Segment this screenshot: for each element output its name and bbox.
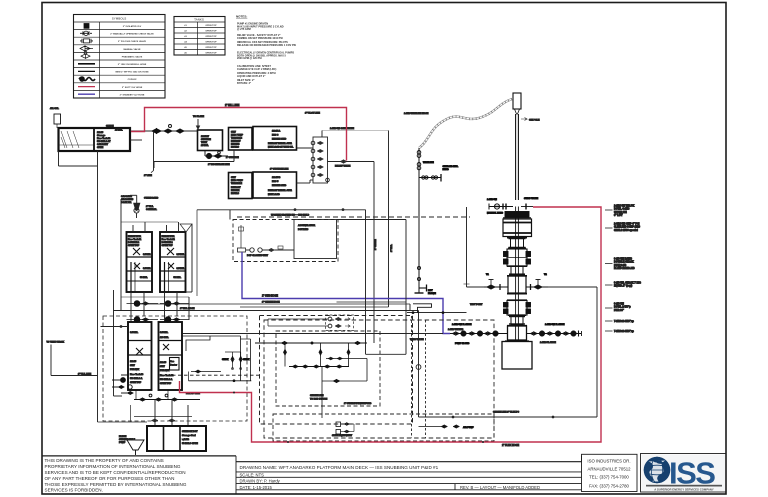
- svg-text:UPS/AUX GROUND NO — RIG HOLD: UPS/AUX GROUND NO — RIG HOLD: [271, 214, 309, 217]
- svg-text:2-1/16 WIRELINE HOSE: 2-1/16 WIRELINE HOSE: [404, 113, 429, 115]
- svg-text:Buster: Buster: [170, 364, 177, 367]
- svg-text:2" FIG 1502 CHECK VALVE: 2" FIG 1502 CHECK VALVE: [118, 40, 146, 43]
- vertical bus choke: [388, 131, 390, 308]
- bottom manifold valves: [134, 390, 200, 401]
- svg-text:CHECK: CHECK: [222, 359, 229, 361]
- svg-text:CHOKE LINE 2" FLEX PS: CHOKE LINE 2" FLEX PS: [493, 412, 520, 414]
- svg-text:2" 1502 CHOKE/KILL HOSE: 2" 1502 CHOKE/KILL HOSE: [118, 64, 147, 66]
- svg-text:12345: 12345: [130, 360, 137, 363]
- svg-text:MAX LOAD: MAX LOAD: [268, 193, 280, 196]
- svg-text:2-1/16 5M FLANGE: 2-1/16 5M FLANGE: [452, 323, 472, 326]
- svg-text:OPEN TOP: OPEN TOP: [205, 47, 217, 49]
- dashed drop tubes: [412, 316, 426, 438]
- svg-text:HEAD: HEAD: [443, 168, 450, 171]
- svg-text:2" SUCTION LINE: 2" SUCTION LINE: [270, 169, 289, 171]
- main diagram: [47, 93, 641, 455]
- mud pump box upper: [229, 128, 253, 151]
- pump cluster under suction tank: [205, 151, 228, 159]
- svg-text:EQUIP. 2" (eqp): EQUIP. 2" (eqp): [614, 285, 632, 288]
- tanks table: [174, 17, 225, 56]
- manifold solid box right edge: [197, 209, 406, 355]
- svg-text:2" STANDPIPE MANIFOLD: 2" STANDPIPE MANIFOLD: [344, 402, 372, 405]
- svg-text:12345 B: 12345 B: [272, 176, 281, 179]
- svg-text:MANUAL WING: MANUAL WING: [487, 212, 503, 215]
- svg-text:SLINE EQUIPMENT: SLINE EQUIPMENT: [332, 435, 353, 437]
- transfer pumps row 2: [127, 317, 190, 323]
- svg-text:PUMP IN SUB: PUMP IN SUB: [455, 343, 470, 345]
- svg-text:Frac Tank #2: Frac Tank #2: [162, 239, 176, 241]
- svg-text:DOUBLE 2: DOUBLE 2: [128, 242, 140, 244]
- svg-text:TO ROD PISTON: TO ROD PISTON: [310, 399, 328, 401]
- hi-lo valve manifold column: [297, 113, 330, 184]
- svg-text:2000 GPM @ 120 PSI: 2000 GPM @ 120 PSI: [237, 57, 262, 60]
- svg-text:CAPACITY: CAPACITY: [97, 143, 109, 146]
- side outlet cross w gate valves: [484, 274, 548, 293]
- manifold vertical drops: [283, 343, 350, 367]
- svg-text:50 BBL: 50 BBL: [140, 277, 148, 279]
- svg-text:RELIEF VALVE: RELIEF VALVE: [335, 165, 351, 168]
- svg-text:OPEN TOP: OPEN TOP: [205, 36, 217, 38]
- row9 red line: [78, 86, 95, 88]
- svg-text:2" LINE: 2" LINE: [144, 175, 152, 177]
- svg-text:CLEAN: CLEAN: [106, 125, 114, 128]
- red high pressure loop A: [131, 108, 347, 161]
- lower pumps / discharge cluster: [112, 375, 134, 395]
- svg-text:SEALS 2700 special: SEALS 2700 special: [614, 229, 638, 232]
- engine skid box upper: [253, 127, 297, 151]
- svg-text:OPEN TOP: OPEN TOP: [205, 42, 217, 44]
- svg-text:PRE-MIX: PRE-MIX: [160, 370, 170, 372]
- svg-text:GIN POLE: GIN POLE: [529, 120, 540, 122]
- svg-text:OVERBOARD: OVERBOARD: [144, 197, 159, 200]
- casing head: [502, 342, 532, 370]
- svg-text:HOURS: HOURS: [231, 193, 239, 195]
- svg-text:12345: 12345: [160, 361, 167, 364]
- svg-text:COMING ON SET PRESSURE 4210 PS: COMING ON SET PRESSURE 4210 PSI: [237, 37, 283, 40]
- upper tank 1: [127, 232, 153, 292]
- svg-text:ARNAUDVILLE 70512: ARNAUDVILLE 70512: [588, 467, 632, 472]
- svg-text:FILL UP LINE: FILL UP LINE: [186, 393, 200, 395]
- svg-text:2" CHOKE: 2" CHOKE: [375, 239, 377, 250]
- svg-text:500 BBLS AT: 500 BBLS AT: [97, 140, 111, 143]
- misc line labels: [180, 157, 556, 344]
- svg-text:PROPRIETARY INFORMATION OF INT: PROPRIETARY INFORMATION OF INTERNATIONAL…: [45, 464, 181, 469]
- row4 valve w stem: [80, 46, 90, 51]
- left main bus vertical: [59, 151, 148, 422]
- svg-text:2" KILL LINE: 2" KILL LINE: [225, 104, 240, 107]
- wireline riser: [415, 148, 459, 295]
- svg-text:PUMP: PUMP: [119, 442, 126, 444]
- svg-text:NOTES:: NOTES:: [236, 15, 247, 19]
- spool 2: [509, 316, 525, 326]
- title block: [42, 454, 726, 495]
- relief line to vertical buses: [322, 127, 389, 168]
- svg-text:8577/BCK BGT: 8577/BCK BGT: [182, 431, 198, 433]
- feed line tank to suction box: [130, 131, 197, 140]
- svg-text:Storage: Storage: [97, 134, 106, 137]
- svg-text:TANKS: TANKS: [194, 17, 204, 21]
- lines down to bottom tank: [134, 400, 192, 427]
- swab valve cross: [487, 197, 539, 215]
- svg-text:50 BBLS OPEN: 50 BBLS OPEN: [182, 443, 198, 445]
- tree upper body: [503, 219, 532, 237]
- spacer spool: [511, 267, 523, 275]
- svg-text:DETROIT: DETROIT: [231, 187, 241, 189]
- trash pump funnel: [119, 405, 144, 455]
- svg-text:DRAWING NAME: WFT ANADARKO PLA: DRAWING NAME: WFT ANADARKO PLATFORM MAIN…: [240, 465, 439, 470]
- svg-text:2" CHOKE HOSE: 2" CHOKE HOSE: [262, 302, 280, 304]
- horizontal tie lines to wellhead: [101, 304, 444, 334]
- svg-text:Frac Tank #4: Frac Tank #4: [160, 374, 174, 377]
- svg-text:2" FILL LINE: 2" FILL LINE: [78, 374, 92, 376]
- callout leaders: [605, 210, 613, 331]
- manifold top sub valves: [268, 315, 354, 331]
- svg-text:123/127: 123/127: [201, 136, 210, 138]
- svg-text:GREASE SEAL: GREASE SEAL: [443, 165, 459, 168]
- row7 line: [78, 70, 95, 72]
- gas buster box: [170, 358, 180, 371]
- row6 thick line: [78, 63, 95, 65]
- svg-text:FRESH WTR: FRESH WTR: [162, 236, 175, 238]
- svg-text:2-1/16 5M GATE VALVE: 2-1/16 5M GATE VALVE: [330, 127, 354, 130]
- svg-text:OPEN TOP: OPEN TOP: [205, 53, 217, 55]
- svg-text:2-1/16 VALVES: 2-1/16 VALVES: [448, 328, 464, 331]
- svg-text:431 GAL: 431 GAL: [50, 107, 60, 110]
- svg-text:SCALE: NTS: SCALE: NTS: [240, 472, 265, 477]
- svg-text:CHARGE EYE CAP: 2 BBM (LDC): CHARGE EYE CAP: 2 BBM (LDC): [237, 68, 276, 71]
- svg-text:25 BBL: 25 BBL: [201, 145, 209, 147]
- row10 blue line: [78, 93, 95, 95]
- wireline hose curve: [419, 99, 512, 148]
- svg-text:CONTROL: CONTROL: [146, 209, 157, 211]
- manifold lower header: [289, 365, 349, 368]
- svg-text:BYPASS: 2": BYPASS: 2": [237, 82, 252, 85]
- svg-text:DATE: 1-15-2015: DATE: 1-15-2015: [240, 485, 273, 490]
- pump interconnect verticals: [121, 292, 189, 322]
- svg-text:2" STANDBY VLV HOSE: 2" STANDBY VLV HOSE: [120, 93, 145, 96]
- ISS logo: [642, 455, 726, 492]
- svg-text:ENGINE: ENGINE: [231, 190, 240, 192]
- row8 coflex blob: [79, 78, 95, 81]
- svg-text:0.5 BBL: 0.5 BBL: [143, 254, 152, 256]
- svg-text:LIQUID AND OUTLET 2": LIQUID AND OUTLET 2": [237, 75, 266, 78]
- skid boundary dashed line: [237, 214, 470, 218]
- BOP ram set 2: [504, 301, 531, 316]
- svg-text:OPEN TOP: OPEN TOP: [160, 383, 172, 385]
- svg-text:@ 275 GPM: @ 275 GPM: [237, 28, 251, 31]
- air pump components: [336, 422, 354, 434]
- svg-text:160 BBL: 160 BBL: [160, 337, 169, 339]
- svg-text:8577: 8577: [231, 132, 237, 134]
- svg-text:ISO INDUSTRIES DR.: ISO INDUSTRIES DR.: [587, 458, 630, 463]
- standpipe manifold inner dashed box: [276, 331, 380, 406]
- svg-text:ENGINE SKID: ENGINE SKID: [272, 139, 287, 141]
- svg-text:FRESH WTR: FRESH WTR: [128, 236, 141, 238]
- svg-text:8577: 8577: [231, 177, 237, 179]
- svg-text:MAX LOAD 2T WITH OIL: MAX LOAD 2T WITH OIL: [268, 146, 294, 149]
- tubing head cross: [450, 323, 582, 345]
- svg-text:500 BBLS A: 500 BBLS A: [160, 378, 173, 381]
- svg-text:TO FLARE: TO FLARE: [193, 115, 204, 118]
- svg-text:OPEN TOP: OPEN TOP: [205, 25, 217, 27]
- svg-text:w/4.5ft: w/4.5ft: [182, 438, 189, 441]
- svg-text:40 BBL: 40 BBL: [115, 129, 123, 132]
- symbols table: [74, 15, 166, 99]
- svg-text:AIR BANKS: AIR BANKS: [121, 198, 134, 201]
- svg-text:2" PILOT LINE: 2" PILOT LINE: [305, 113, 320, 115]
- discharge manifold right of tanks: [172, 336, 259, 382]
- sline equipment dashed box: [264, 320, 494, 441]
- svg-text:Frac Tank #2: Frac Tank #2: [97, 138, 111, 140]
- vent to flare stub: [193, 115, 204, 129]
- tank top stubs: [121, 132, 197, 297]
- svg-text:CHECK: CHECK: [243, 359, 250, 361]
- row3 valve symbol: [80, 39, 93, 43]
- manifold mid cluster: [326, 357, 346, 360]
- svg-text:ECS 5: ECS 5: [272, 181, 279, 183]
- svg-text:COFLEX: COFLEX: [128, 79, 137, 81]
- choke manifold outer dashed box: [260, 316, 413, 425]
- svg-text:PRE-MIX: PRE-MIX: [130, 369, 140, 371]
- svg-text:OF ANY PART THEREOF OR FOR PUR: OF ANY PART THEREOF OR FOR PURPOSES OTHE…: [45, 476, 175, 481]
- discharge line from mud pump: [154, 150, 234, 168]
- svg-text:DETROIT DIESEL 8V71: DETROIT DIESEL 8V71: [268, 190, 293, 192]
- svg-text:BOAT AIR: BOAT AIR: [121, 201, 132, 204]
- svg-text:ENGINE SKID: ENGINE SKID: [272, 185, 287, 187]
- svg-text:Frac Tank #1: Frac Tank #1: [128, 239, 142, 241]
- red high pressure loop B: [180, 207, 602, 442]
- row1 black rect symbol: [84, 24, 89, 29]
- svg-text:12345 A: 12345 A: [272, 130, 281, 133]
- blue sub hose: [242, 252, 450, 334]
- BOP ram set 1: [504, 249, 531, 266]
- svg-text:SUBMERSIBLE: SUBMERSIBLE: [119, 439, 135, 441]
- svg-text:BOTTLES: BOTTLES: [298, 229, 309, 231]
- kill line vertical from tree: [464, 207, 485, 287]
- choke line from wellhead: [410, 287, 597, 418]
- wireline lubricator: [513, 93, 540, 200]
- svg-text:WIRELINE: WIRELINE: [423, 162, 434, 164]
- svg-text:OPEN: OPEN: [97, 147, 104, 149]
- suction valves cluster: [152, 125, 184, 134]
- svg-text:OPEN TOP: OPEN TOP: [130, 382, 142, 384]
- svg-text:0.5 BBL: 0.5 BBL: [177, 254, 186, 256]
- svg-text:SERVICES AND IS TO BE KEPT CON: SERVICES AND IS TO BE KEPT CONFIDENTIAL/…: [45, 470, 186, 475]
- suction tank box 25BBL: [198, 130, 223, 151]
- svg-text:0.5 BBL: 0.5 BBL: [143, 268, 152, 270]
- svg-text:VARIABLE: VARIABLE: [231, 137, 243, 140]
- row5 pneumatic valve: [81, 54, 90, 58]
- svg-text:2" KILL: 2" KILL: [391, 244, 393, 252]
- svg-text:RELEASE ON INCREASED PRESSURE: RELEASE ON INCREASED PRESSURE 1 COV PSI: [237, 44, 296, 47]
- svg-text:SYMBOLS: SYMBOLS: [112, 17, 127, 21]
- svg-text:SUCTION: SUCTION: [201, 139, 211, 141]
- svg-text:MANUAL VALVE: MANUAL VALVE: [123, 48, 141, 51]
- svg-text:VARIABLE: VARIABLE: [231, 182, 243, 185]
- mud pump box lower: [229, 173, 253, 199]
- svg-text:Storage Stud: Storage Stud: [182, 434, 196, 437]
- svg-text:0.5 BBL: 0.5 BBL: [160, 332, 169, 334]
- svg-text:7-1/16×2-9/16"xp: 7-1/16×2-9/16"xp: [614, 330, 634, 333]
- svg-text:OPEN TOP: OPEN TOP: [205, 31, 217, 33]
- svg-text:2" SUCTION: 2" SUCTION: [226, 157, 239, 159]
- to vent stack: [47, 341, 98, 376]
- svg-text:2" FILL: 2" FILL: [146, 206, 154, 208]
- stack flange bars: [505, 238, 529, 342]
- svg-text:PKR 30": PKR 30": [614, 309, 625, 312]
- storage tank T-100: [59, 128, 131, 151]
- svg-text:2" SUCT VLV HOSE: 2" SUCT VLV HOSE: [122, 87, 143, 89]
- transfer pumps row 1: [127, 301, 190, 307]
- svg-text:50 BBL: 50 BBL: [174, 277, 182, 279]
- svg-text:LIFT: LIFT: [428, 290, 433, 292]
- svg-text:HOURS: HOURS: [231, 147, 239, 149]
- tree cap: [503, 212, 531, 218]
- svg-text:FLUSH: FLUSH: [119, 436, 127, 438]
- svg-text:3" LIFT: 3" LIFT: [614, 214, 623, 217]
- svg-text:2-1/16 FLANGE: 2-1/16 FLANGE: [540, 341, 556, 344]
- lower tank 2: [159, 322, 183, 390]
- svg-text:MUD PUMP: MUD PUMP: [231, 180, 243, 182]
- svg-text:8577: 8577: [130, 365, 136, 367]
- svg-text:TANK: TANK: [201, 141, 207, 144]
- svg-text:SERVICES IS FORBIDDEN.: SERVICES IS FORBIDDEN.: [45, 488, 103, 493]
- svg-text:DETROIT: DETROIT: [231, 141, 241, 143]
- air pump: [419, 425, 475, 429]
- svg-text:0.5 BBL: 0.5 BBL: [177, 268, 186, 270]
- bottom 3-compartment tank: [147, 426, 206, 451]
- svg-text:OPEN TOP: OPEN TOP: [128, 245, 140, 247]
- svg-text:A SUPERIOR ENERGY SERVICES COM: A SUPERIOR ENERGY SERVICES COMPANY: [654, 487, 714, 491]
- svg-text:ACCUMULATOR: ACCUMULATOR: [298, 224, 315, 227]
- engine skid box lower: [253, 169, 297, 199]
- svg-text:REV. B — LAYOUT — MANIFOLD ADD: REV. B — LAYOUT — MANIFOLD ADDED: [460, 485, 540, 490]
- svg-text:7-1/16×2-9/16"xp: 7-1/16×2-9/16"xp: [614, 320, 634, 323]
- svg-text:2" SUB HOSE: 2" SUB HOSE: [262, 295, 278, 298]
- svg-text:500 BBLS A: 500 BBLS A: [130, 377, 143, 380]
- svg-text:12345: 12345: [97, 131, 104, 134]
- lower tank 1: [128, 322, 152, 390]
- svg-text:ENGINE: ENGINE: [231, 144, 240, 146]
- svg-text:BLIND RAMS A/B: BLIND RAMS A/B: [614, 267, 635, 270]
- BOP closing unit dashed box: [233, 220, 338, 262]
- svg-text:2-1/16 5M FLANGE: 2-1/16 5M FLANGE: [545, 323, 565, 326]
- svg-text:2" MANUALLY OPERATED CHECK VAL: 2" MANUALLY OPERATED CHECK VALVE: [110, 33, 154, 36]
- manifold header line: [255, 341, 367, 345]
- svg-text:TEL: (337) 754-7000: TEL: (337) 754-7000: [589, 475, 629, 480]
- svg-text:TEST PORT: TEST PORT: [470, 304, 483, 306]
- svg-text:MUD PUMP: MUD PUMP: [231, 135, 243, 137]
- svg-text:2" DISCHARGE LINE: 2" DISCHARGE LINE: [208, 163, 230, 166]
- serpentine hose connection: [407, 304, 467, 314]
- svg-text:AIR PUMP: AIR PUMP: [463, 426, 474, 429]
- svg-text:0.5 BBL: 0.5 BBL: [130, 332, 139, 334]
- svg-text:Frac Tank #3: Frac Tank #3: [130, 374, 144, 376]
- svg-text:8577: 8577: [160, 366, 166, 368]
- svg-text:DETROIT DIESEL 8V71: DETROIT DIESEL 8V71: [268, 143, 293, 145]
- svg-text:PNEUMATIC VALVE: PNEUMATIC VALVE: [122, 55, 143, 58]
- svg-text:TO VENT STACK: TO VENT STACK: [47, 341, 65, 344]
- svg-text:ECS 8: ECS 8: [272, 135, 279, 137]
- vertical bus kill: [373, 162, 375, 344]
- pump skid dashed boundary: [103, 316, 247, 421]
- svg-text:THIS DRAWING IS THE PROPERTY O: THIS DRAWING IS THE PROPERTY OF AND CONT…: [45, 458, 164, 463]
- spool 1: [509, 238, 526, 248]
- notes block: [236, 15, 296, 85]
- upper tank 2: [160, 232, 186, 292]
- svg-text:2" FLEX HOSE: 2" FLEX HOSE: [502, 444, 519, 447]
- svg-text:BOP CLOSING UNIT: BOP CLOSING UNIT: [247, 255, 269, 257]
- svg-text:FRAME: FRAME: [428, 292, 436, 295]
- manifold choke valve lower: [322, 359, 367, 419]
- svg-text:FAX: (337) 754-2780: FAX: (337) 754-2780: [589, 483, 630, 488]
- svg-text:NEW 2" WP PIG 1502 C/K HOSE: NEW 2" WP PIG 1502 C/K HOSE: [115, 72, 149, 74]
- svg-text:OPEN TOP: OPEN TOP: [162, 245, 174, 247]
- row2 check valve symbol: [80, 31, 92, 35]
- svg-text:SWAB VALVE: SWAB VALVE: [524, 197, 539, 200]
- svg-text:THOSE EXPRESSLY PERMITTED BY I: THOSE EXPRESSLY PERMITTED BY INTERNATION…: [45, 482, 187, 487]
- svg-text:2-1/16 5M: 2-1/16 5M: [487, 199, 497, 201]
- svg-text:2" ISOLATED VLV: 2" ISOLATED VLV: [123, 25, 142, 28]
- sample point flask: [121, 195, 159, 218]
- svg-text:2" KILL HOSE: 2" KILL HOSE: [180, 308, 195, 310]
- svg-text:DOUBLE 2: DOUBLE 2: [162, 242, 174, 244]
- svg-text:DRAWN BY: P. Hardy: DRAWN BY: P. Hardy: [240, 479, 281, 484]
- wellbore center line: [516, 207, 519, 342]
